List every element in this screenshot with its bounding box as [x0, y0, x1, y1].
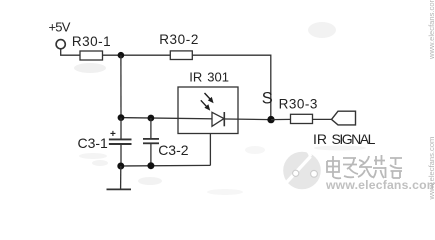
char 2 zi	[343, 158, 358, 177]
node S junction	[267, 116, 274, 123]
capacitor C3-2	[150, 118, 152, 139]
svg-text:C3-2: C3-2	[158, 142, 189, 158]
resistor R30-2	[170, 51, 192, 60]
wire mid horizontal node B to node S	[121, 118, 271, 120]
wire bottom horizontal	[121, 164, 210, 167]
light arrow 2	[201, 100, 208, 107]
svg-text:R30-3: R30-3	[279, 97, 318, 112]
junction node D (ground)	[117, 163, 124, 170]
char 3 fa	[358, 156, 373, 177]
char 4 shao	[373, 155, 386, 178]
junction node C (C3-2 top)	[148, 115, 155, 122]
svg-text:301: 301	[207, 69, 229, 84]
svg-text:IR: IR	[313, 131, 327, 147]
IR receiver module U1 (IR 301) box	[178, 87, 238, 134]
svg-text:www.elecfans.com: www.elecfans.com	[325, 178, 435, 192]
char 5 you	[390, 158, 402, 178]
wire R30-2 to top-right corner and down to node S	[192, 55, 270, 119]
svg-text:+5V: +5V	[49, 20, 71, 35]
wire left vertical from node A down to node B	[120, 55, 122, 117]
svg-text:SIGNAL: SIGNAL	[332, 131, 376, 147]
junction node E (C3-2 bottom)	[147, 162, 154, 169]
wire R30-3 to connector	[313, 118, 332, 120]
char 1 dian	[327, 156, 341, 178]
svg-text:+: +	[110, 129, 116, 140]
photodiode of IR 301	[212, 112, 224, 126]
wire node S to R30-3	[271, 118, 291, 120]
capacitor C3-1	[120, 118, 122, 139]
svg-text:IR: IR	[189, 69, 202, 84]
wire from +5V terminal to R30-1	[61, 49, 80, 55]
resistor R30-1	[80, 51, 103, 60]
node +5V terminal	[56, 40, 65, 49]
junction node A (top)	[118, 52, 125, 59]
wire R30-1 to R30-2	[103, 54, 171, 56]
watermark logo disc	[283, 148, 321, 190]
resistor R30-3	[291, 114, 313, 123]
junction node B	[118, 114, 125, 121]
svg-text:www.elecfans.com: www.elecfans.com	[427, 137, 435, 201]
ground	[120, 166, 122, 189]
svg-text:www.elecfans.com: www.elecfans.com	[427, 0, 435, 60]
svg-text:C3-1: C3-1	[78, 135, 109, 151]
light arrow 1	[205, 93, 212, 100]
wire from IR box bottom down to bottom wire	[209, 134, 211, 166]
svg-text:R30-2: R30-2	[159, 32, 199, 47]
svg-text:S: S	[262, 90, 273, 108]
connector IR SIGNAL plug	[332, 111, 356, 125]
svg-text:R30-1: R30-1	[72, 34, 111, 49]
watermark CJK 电子发烧友 (approximated strokes)	[327, 155, 402, 178]
